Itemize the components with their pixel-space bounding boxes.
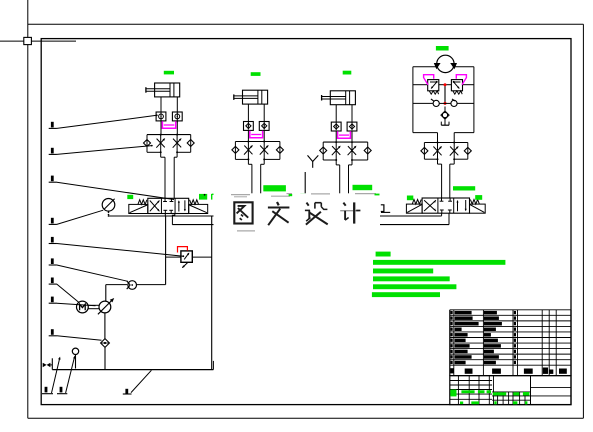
text bar 4 (green): [373, 276, 450, 281]
wire: [424, 142, 467, 144]
check valve bypass left: [421, 143, 438, 160]
part label 12: [57, 356, 76, 394]
wire: [438, 163, 442, 165]
text bar 1 (green): [376, 252, 391, 257]
check valve bypass right: [177, 135, 194, 153]
pilot check valve right: [347, 122, 357, 131]
remote pilot (red): [178, 247, 188, 253]
part label 11: [42, 357, 60, 394]
hydraulic cylinder: [146, 83, 180, 97]
label L4 (green): [436, 46, 449, 51]
label L2 (green): [251, 72, 261, 76]
label V4b (green): [475, 195, 482, 200]
pilot line right (magenta): [456, 75, 466, 85]
level gauge: [43, 358, 53, 369]
hydraulic cylinder: [322, 91, 356, 105]
relief valve right: [451, 80, 462, 95]
return bus wire: [172, 224, 449, 226]
pilot check valve left: [156, 112, 166, 121]
check valve bypass left: [320, 142, 337, 160]
throttle valve: [450, 146, 459, 156]
crossed-flow position: [424, 200, 436, 211]
part label 10: [381, 205, 390, 213]
solenoid left V1: [129, 200, 148, 214]
throttle valve: [332, 146, 341, 156]
pump P1: [98, 298, 114, 314]
title block: [450, 376, 571, 405]
pressure line wire: [165, 216, 167, 285]
green speck: [289, 194, 293, 196]
directional valve V4 body: [422, 198, 469, 213]
parallel-flow position: [456, 200, 466, 211]
solenoid right V1: [189, 200, 208, 214]
wire: [335, 131, 337, 142]
watermark char TU: [234, 202, 252, 223]
part label 7: [49, 278, 79, 303]
check valve center: [441, 107, 449, 120]
corner mark (green): [212, 194, 218, 200]
pilot check valve left: [244, 122, 254, 131]
wire: [248, 163, 252, 165]
parallel-flow position: [178, 200, 186, 211]
wire: [247, 130, 249, 141]
BOM table: [450, 310, 571, 376]
crossed-flow position: [150, 201, 160, 212]
wire: [160, 121, 162, 135]
check valve left: [431, 99, 439, 107]
wire: [147, 134, 191, 136]
wire P port: [441, 213, 443, 216]
check valve CV: [127, 281, 137, 290]
filter F: [101, 339, 110, 348]
wire: [437, 133, 439, 143]
wire T port: [172, 214, 174, 225]
text bar 3 (green): [373, 269, 433, 274]
wire: [235, 141, 280, 143]
check valve bypass right: [352, 142, 371, 160]
pilot check valve left: [331, 122, 341, 131]
part label 4: [49, 210, 103, 224]
drain symbol Y: [308, 155, 319, 167]
throttle valve: [348, 146, 357, 156]
pilot check valve right: [259, 122, 269, 131]
directional valve V1 body: [148, 198, 189, 213]
part label 1: [49, 114, 158, 128]
node (red): [444, 83, 447, 105]
check valve bypass right: [454, 143, 471, 160]
title block fills (green): [450, 390, 529, 405]
label V2 (green): [263, 185, 286, 191]
pilot line (magenta): [250, 131, 263, 138]
wire: [160, 97, 162, 123]
watermark char SHE: [305, 203, 328, 225]
throttle valve: [173, 138, 182, 148]
wire T port: [448, 213, 450, 224]
wire: [437, 143, 439, 165]
BOM rows (redacted bars): [451, 311, 517, 364]
pilot check valve right: [172, 112, 182, 121]
part label 8: [49, 297, 96, 306]
gray trace: [231, 194, 376, 231]
wire: [335, 142, 337, 165]
wire: [247, 104, 249, 130]
green dash: [300, 193, 305, 195]
wire: [336, 164, 340, 166]
text bar 5 (green): [373, 284, 456, 289]
part label 5: [49, 237, 185, 257]
wire: [105, 285, 107, 302]
check valve bypass right: [264, 142, 283, 160]
pilot line left (magenta): [424, 75, 434, 85]
solenoid right V4: [470, 200, 486, 214]
wire: [247, 142, 249, 165]
part label 3: [49, 176, 174, 200]
solenoid left V4: [406, 200, 422, 214]
watermark char WEN: [268, 202, 290, 225]
thermometer: [72, 348, 78, 368]
part label 6: [49, 258, 128, 281]
wire: [106, 284, 127, 286]
label V4a (green): [407, 196, 413, 201]
pilot line (magenta): [338, 131, 351, 138]
tank symbol: [441, 118, 449, 125]
check valve bypass left: [144, 135, 161, 153]
hydraulic motor: [434, 55, 457, 72]
watermark char JI: [340, 202, 360, 223]
green speck 2: [375, 194, 380, 196]
pressure gauge: [102, 199, 115, 217]
suction wire: [104, 313, 106, 339]
wire: [335, 105, 337, 131]
part label 2: [49, 145, 153, 155]
tank line: [52, 369, 213, 371]
wire: [323, 141, 368, 143]
wire: [161, 156, 165, 158]
label V3 (green): [353, 185, 373, 190]
coupling: [88, 305, 99, 308]
part label 13: [123, 370, 152, 394]
relief valve left: [428, 80, 439, 95]
closed center position: [440, 198, 452, 213]
wire: [104, 347, 106, 369]
relief valve RV: [166, 251, 212, 268]
pressure bus wire: [109, 215, 442, 217]
throttle valve: [433, 146, 442, 156]
wire: [304, 172, 306, 194]
label L3 (green): [343, 71, 352, 75]
closed center position: [163, 198, 173, 213]
hydraulic cylinder: [234, 90, 268, 104]
pilot line (magenta): [162, 121, 175, 128]
motor manifold box: [413, 67, 474, 133]
wire P port: [164, 214, 166, 216]
electric motor M: [77, 301, 89, 313]
check valve right: [451, 99, 457, 107]
label V4 (green): [453, 186, 475, 190]
BOM header (redacted): [450, 368, 567, 374]
watermark background: [214, 193, 381, 230]
label L1 (green): [164, 71, 174, 75]
text bar 2 (green): [373, 260, 505, 265]
wire: [413, 84, 428, 86]
part label 9: [49, 329, 102, 340]
throttle valve: [260, 145, 269, 155]
text bar 6 (green): [372, 292, 440, 297]
return riser wire: [211, 216, 213, 370]
throttle valve: [244, 145, 253, 155]
check valve bypass left: [232, 142, 249, 160]
tank pipe: [212, 361, 214, 370]
wire: [160, 135, 162, 158]
throttle valve: [156, 138, 165, 148]
label V1a (green): [127, 195, 133, 199]
wire: [413, 102, 433, 104]
label V1b (green): [199, 194, 207, 200]
